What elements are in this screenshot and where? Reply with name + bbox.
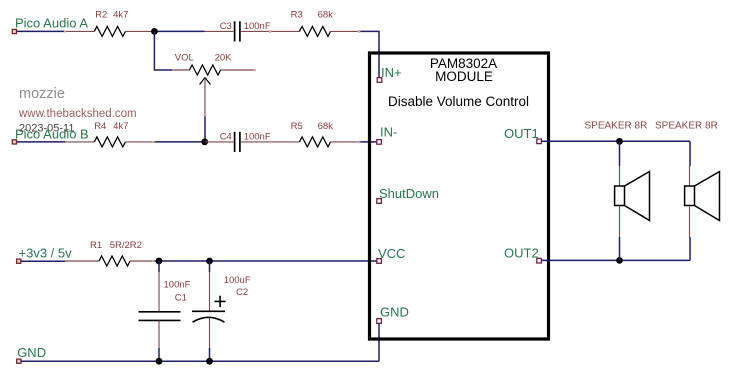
wire end marker C4-R5 xyxy=(269,141,272,144)
pin label IN+ xyxy=(381,65,402,80)
resistor R1 xyxy=(65,256,154,266)
svg-text:www.thebackshed.com: www.thebackshed.com xyxy=(18,108,137,120)
svg-text:R5: R5 xyxy=(291,121,303,132)
label 100nF (C4) xyxy=(244,131,271,142)
label C3 xyxy=(220,21,232,32)
svg-text:4k7: 4k7 xyxy=(113,121,128,132)
resistor R2 xyxy=(65,26,154,36)
svg-text:Pico Audio A: Pico Audio A xyxy=(15,16,88,31)
svg-text:100nF: 100nF xyxy=(244,131,271,142)
pin label GND xyxy=(380,304,409,319)
power label +3v3 / 5v xyxy=(19,245,73,260)
wire GND rail xyxy=(21,360,379,362)
wire end marker VOL right xyxy=(253,69,256,72)
junction node VCC-C1 xyxy=(156,258,163,265)
speaker LS1 xyxy=(615,166,650,237)
resistor R5 xyxy=(270,137,359,147)
label 20K (VOL) xyxy=(215,52,233,63)
wire OUT2 rail xyxy=(542,259,691,261)
wire P1 xyxy=(21,260,65,262)
junction node B xyxy=(201,139,208,146)
wire LS2 bottom xyxy=(689,237,691,260)
svg-text:C1: C1 xyxy=(175,292,187,303)
wire VOL top (from node A) xyxy=(154,31,172,70)
junction node GND-C2 xyxy=(206,358,213,365)
label 100uF (C2) xyxy=(224,275,251,286)
svg-text:68k: 68k xyxy=(318,10,334,21)
label R1 xyxy=(90,240,102,251)
svg-text:Disable Volume Control: Disable Volume Control xyxy=(388,94,529,109)
svg-text:GND: GND xyxy=(380,304,409,319)
junction node VCC-C2 xyxy=(206,258,213,265)
label VOL xyxy=(175,52,194,63)
svg-text:5R/2R2: 5R/2R2 xyxy=(110,240,142,251)
svg-text:OUT1: OUT1 xyxy=(504,126,539,141)
svg-text:R3: R3 xyxy=(291,10,303,21)
pin label ShutDown xyxy=(379,186,439,201)
label C2 xyxy=(236,287,248,298)
svg-text:R1: R1 xyxy=(90,240,102,251)
port Pico Audio B xyxy=(12,140,16,144)
svg-text:SPEAKER 8R: SPEAKER 8R xyxy=(585,120,648,131)
pin IN+ xyxy=(377,78,382,83)
text 2023-05-11 xyxy=(19,123,74,135)
capacitor C2 (polarized) xyxy=(192,261,226,361)
svg-text:C2: C2 xyxy=(236,287,248,298)
label 5R/2R2 (R1) xyxy=(110,240,142,251)
svg-text:Pico Audio B: Pico Audio B xyxy=(15,126,89,141)
label 100nF (C1) xyxy=(164,279,191,290)
pin IN- xyxy=(377,140,382,145)
svg-text:GND: GND xyxy=(17,345,46,360)
wire B3 to IN- xyxy=(359,141,377,143)
label SPEAKER 8R (LS1) xyxy=(585,120,648,131)
wire LS1 bottom lead xyxy=(619,237,621,260)
wire A3 to IN+ xyxy=(359,31,379,77)
wire P2 to VCC xyxy=(154,260,378,262)
speaker LS2 xyxy=(685,166,720,237)
svg-text:VCC: VCC xyxy=(378,246,405,261)
label R4 xyxy=(94,121,106,132)
pin label OUT2 xyxy=(504,245,539,260)
ground label GND xyxy=(17,345,46,360)
wire end marker R5 right xyxy=(358,141,361,144)
svg-text:R4: R4 xyxy=(94,121,106,132)
svg-text:+3v3 / 5v: +3v3 / 5v xyxy=(19,245,73,260)
label PAM8302A xyxy=(430,56,497,71)
wire LS2 top xyxy=(689,141,691,166)
label C4 xyxy=(220,131,232,142)
svg-text:R2: R2 xyxy=(95,10,107,21)
svg-text:mozzie: mozzie xyxy=(19,86,65,102)
wire OUT1 rail xyxy=(542,140,691,142)
svg-text:C3: C3 xyxy=(220,21,232,32)
label MODULE xyxy=(435,69,493,84)
net label Pico Audio A xyxy=(15,16,88,31)
port +3v3/5v xyxy=(17,259,21,263)
junction node GND-C1 xyxy=(156,358,163,365)
port Pico Audio A xyxy=(12,29,16,33)
junction node OUT1-LS1 xyxy=(616,138,623,145)
resistor R3 xyxy=(270,26,359,36)
wire B1 xyxy=(17,141,65,143)
svg-text:SPEAKER 8R: SPEAKER 8R xyxy=(655,120,718,131)
resistor R4 xyxy=(65,137,154,147)
text www.thebackshed.com xyxy=(18,108,137,120)
wire end marker R2 right xyxy=(152,141,154,143)
svg-text:VOL: VOL xyxy=(175,52,194,63)
capacitor C3 xyxy=(205,21,270,41)
label R5 xyxy=(291,121,303,132)
wire end marker C3-R3 xyxy=(269,30,272,33)
port GND xyxy=(17,359,21,363)
svg-text:4k7: 4k7 xyxy=(113,10,128,21)
wire end marker A-R2 xyxy=(64,30,66,32)
label SPEAKER 8R (LS2) xyxy=(655,120,718,131)
pin label OUT1 xyxy=(504,126,539,141)
label 4k7 (R4) xyxy=(113,121,128,132)
label C1 xyxy=(175,292,187,303)
svg-text:ShutDown: ShutDown xyxy=(379,186,439,201)
capacitor C1 xyxy=(139,261,181,361)
pin OUT1 xyxy=(537,139,542,144)
wire end marker R3 right xyxy=(358,30,361,33)
label R3 xyxy=(291,10,303,21)
svg-text:100nF: 100nF xyxy=(164,279,191,290)
wire LS1 top lead xyxy=(619,141,621,166)
wire end marker R1 right xyxy=(152,260,154,262)
junction node A xyxy=(151,28,158,35)
svg-text:100uF: 100uF xyxy=(224,275,251,286)
junction node OUT2-LS1 xyxy=(616,257,623,264)
label 68k (R5) xyxy=(318,121,334,132)
svg-text:100nF: 100nF xyxy=(244,21,271,32)
svg-text:IN-: IN- xyxy=(380,124,397,139)
wire A1 xyxy=(17,30,65,32)
svg-text:68k: 68k xyxy=(318,121,334,132)
pin ShutDown xyxy=(377,199,382,204)
net label Pico Audio B xyxy=(15,126,89,141)
svg-text:IN+: IN+ xyxy=(381,65,402,80)
svg-text:C4: C4 xyxy=(220,131,232,142)
pin VCC xyxy=(377,259,382,264)
label 100nF (C3) xyxy=(244,21,271,32)
wire GND riser to module xyxy=(378,323,380,361)
wire VOL wiper to node B xyxy=(204,115,206,142)
pin label VCC xyxy=(378,246,405,261)
label 4k7 (R2) xyxy=(113,10,128,21)
capacitor C4 xyxy=(205,132,270,152)
pin GND xyxy=(377,319,382,324)
wire A2 xyxy=(154,30,205,32)
svg-text:MODULE: MODULE xyxy=(435,69,493,84)
wire end marker VOL wiper xyxy=(204,114,207,117)
svg-text:OUT2: OUT2 xyxy=(504,245,539,260)
label R2 xyxy=(95,10,107,21)
module U1 PAM8302A box xyxy=(370,53,549,339)
potentiometer VOL xyxy=(172,65,255,115)
svg-text:20K: 20K xyxy=(215,52,233,63)
label Disable Volume Control xyxy=(388,94,529,109)
label 68k (R3) xyxy=(318,10,334,21)
text mozzie xyxy=(19,86,65,102)
pin label IN- xyxy=(380,124,397,139)
pin OUT2 xyxy=(537,258,542,263)
wire B2 xyxy=(154,141,205,143)
